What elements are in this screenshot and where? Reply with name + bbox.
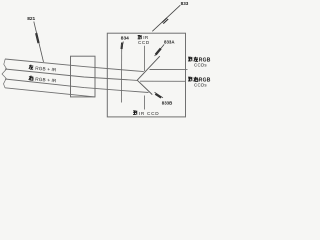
wire: strip line 3: [5, 79, 149, 93]
label 到左RGB CCDs: [188, 57, 211, 68]
svg-text:CCDs: CCDs: [194, 62, 207, 67]
small box (lens): [71, 56, 96, 97]
strip 821: film band, left break zigzag: [2, 59, 7, 88]
svg-text:821: 821: [27, 16, 35, 22]
mirror 833B (lower arm of V): [137, 80, 152, 94]
label 到右RGB CCDs: [188, 77, 211, 88]
svg-text:833: 833: [181, 1, 189, 6]
transmitted beam upper: [150, 68, 188, 70]
svg-text:CCD: CCD: [138, 40, 150, 45]
wire: strip line 1 (top): [5, 59, 144, 72]
svg-text:834: 834: [121, 36, 129, 42]
svg-text:833A: 833A: [164, 39, 175, 44]
row text 左 RGB + IR: [29, 65, 57, 73]
row text 右 RGB + IR: [29, 75, 58, 83]
svg-text:IR CCD: IR CCD: [139, 111, 160, 116]
label 到IR CCD (bottom): [133, 111, 159, 116]
mirror 833A (upper arm of V): [137, 56, 160, 80]
reflected IR beam up: [143, 46, 145, 71]
svg-text:833B: 833B: [162, 100, 173, 105]
wire: strip line 2: [5, 69, 137, 80]
svg-text:RGB + IR: RGB + IR: [35, 66, 57, 73]
transmitted beam lower: [140, 80, 186, 82]
filter plate 834 (vertical line): [121, 46, 123, 103]
big box (splitter housing): [107, 33, 185, 117]
svg-text:CCDs: CCDs: [194, 82, 207, 87]
label 到IR CCD (top): [138, 35, 150, 45]
leader 821: [34, 22, 44, 63]
reflected IR beam down: [144, 96, 146, 110]
wire: strip line 4 (bottom): [5, 88, 95, 97]
